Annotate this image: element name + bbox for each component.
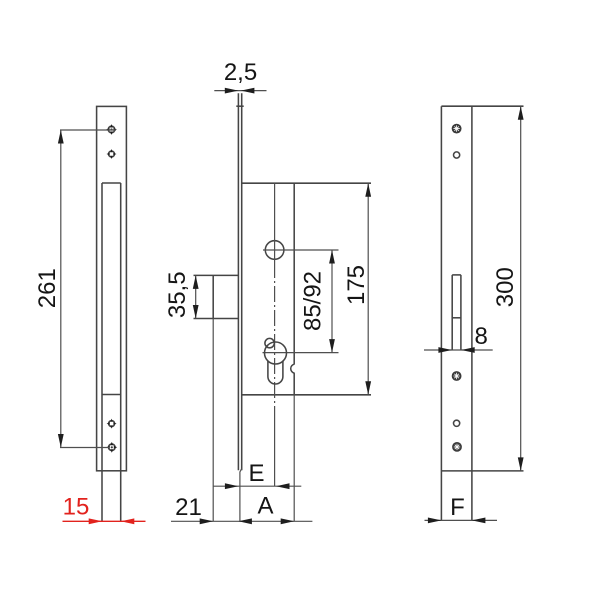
- screw hole right bottom: [452, 442, 462, 452]
- dimension 15 red arrow left: [121, 518, 135, 524]
- dimension 2,5 line: [214, 90, 266, 92]
- dimension 21 arrow: [200, 518, 214, 524]
- screw hole right top: [452, 124, 462, 134]
- dimension 35,5 line: [195, 275, 197, 318]
- screw hole left bottom 1: [107, 419, 117, 429]
- bolt bottom edge: [194, 318, 239, 320]
- dimension F line: [425, 519, 498, 521]
- dimension 261 bottom extension: [60, 447, 110, 449]
- cylinder profile stem: [268, 361, 283, 385]
- dimension 8 arrow left outside: [438, 347, 452, 353]
- case edge notch: [291, 364, 295, 373]
- right slot top edge: [452, 274, 461, 276]
- spindle hub circle: [265, 241, 284, 260]
- right plate right edge: [471, 106, 473, 520]
- svg-text:261: 261: [34, 268, 61, 308]
- right plate top edge: [441, 105, 523, 107]
- dimension 35,5 arrow up: [193, 275, 199, 289]
- dimension 261 arrow down: [58, 434, 64, 448]
- bolt front edge: [212, 275, 214, 318]
- bolt top edge: [194, 274, 239, 276]
- dimension 175 arrow up: [365, 183, 371, 197]
- right plate bottom edge: [441, 470, 523, 472]
- svg-text:2,5: 2,5: [224, 59, 257, 86]
- dimension 8 arrow right outside: [461, 347, 475, 353]
- vertical centerline spindle to cylinder: [274, 262, 276, 420]
- right slot right edge: [460, 275, 462, 350]
- svg-text:300: 300: [492, 267, 519, 307]
- dimension E line: [213, 485, 301, 487]
- dimension 300 line: [520, 106, 522, 471]
- dimension 2,5 arrow right: [225, 88, 239, 94]
- dimension E arrow right outside: [276, 483, 290, 489]
- round hole right upper: [454, 152, 460, 158]
- dimension 15 red line: [63, 520, 146, 522]
- left plate inner strip right edge: [120, 183, 122, 521]
- case right edge extension down: [293, 395, 295, 522]
- svg-text:A: A: [257, 493, 273, 520]
- cylinder horizontal centerline: [263, 352, 339, 354]
- dimension 300 arrow up: [518, 106, 524, 120]
- screw hole left top 2: [107, 149, 117, 159]
- svg-text:15: 15: [63, 494, 90, 521]
- svg-text:175: 175: [343, 265, 370, 305]
- left plate outline: [97, 106, 127, 470]
- left plate inner strip left edge: [101, 183, 103, 521]
- dimension A and 21 line: [171, 520, 312, 522]
- vertical centerline through spindle: [274, 183, 276, 262]
- dimension A arrow right: [281, 518, 295, 524]
- faceplate edge right line: [241, 93, 243, 470]
- vertical centerline extension to E: [274, 420, 276, 486]
- screw hole right middle: [452, 371, 462, 381]
- bolt front extension down: [212, 319, 214, 522]
- dimension 85/92 arrow down: [329, 339, 335, 353]
- svg-text:8: 8: [475, 323, 488, 350]
- dimension 261 arrow up: [58, 130, 64, 144]
- left plate slot bottom edge: [102, 394, 121, 396]
- dimension 85/92 arrow up: [329, 250, 335, 264]
- dimension 35,5 arrow down: [193, 305, 199, 319]
- dimension 300 arrow down: [518, 457, 524, 471]
- svg-text:F: F: [450, 494, 465, 521]
- dimension 261 line: [60, 130, 62, 448]
- dimension 175 line: [367, 183, 369, 395]
- svg-text:21: 21: [175, 494, 202, 521]
- cylinder profile top bump: [265, 338, 274, 347]
- svg-text:35,5: 35,5: [164, 271, 191, 318]
- right slot left edge: [451, 275, 453, 350]
- lock case right edge upper: [293, 183, 295, 364]
- dimension A arrow left: [238, 518, 252, 524]
- dimension 85/92 line: [331, 250, 333, 353]
- lock case top edge: [242, 182, 371, 184]
- dimension 261 top extension: [60, 129, 116, 131]
- faceplate top tick: [236, 105, 243, 107]
- screw hole left top 1: [106, 124, 117, 135]
- dimension 8 line: [424, 349, 493, 351]
- cylinder profile main circle: [265, 342, 287, 364]
- lock case bottom edge: [242, 394, 371, 396]
- round hole right lower: [454, 420, 460, 426]
- lock case right edge lower: [293, 373, 295, 395]
- dimension 15 red arrow right: [89, 518, 103, 524]
- faceplate edge left line: [237, 93, 239, 470]
- dimension 175 arrow down: [365, 381, 371, 395]
- left plate slot top edge: [102, 182, 121, 184]
- dimension E arrow left outside: [225, 483, 239, 489]
- svg-text:85/92: 85/92: [300, 271, 327, 331]
- right slot divider: [452, 317, 461, 319]
- right plate left edge: [440, 106, 442, 520]
- dimension 2,5 arrow left: [241, 88, 255, 94]
- dimension F arrow right outside: [472, 518, 486, 524]
- spindle horizontal centerline: [263, 249, 339, 251]
- dimension F arrow left outside: [428, 518, 442, 524]
- screw hole left bottom 2: [106, 442, 117, 453]
- faceplate bottom extension line: [240, 469, 242, 522]
- svg-text:E: E: [248, 460, 264, 487]
